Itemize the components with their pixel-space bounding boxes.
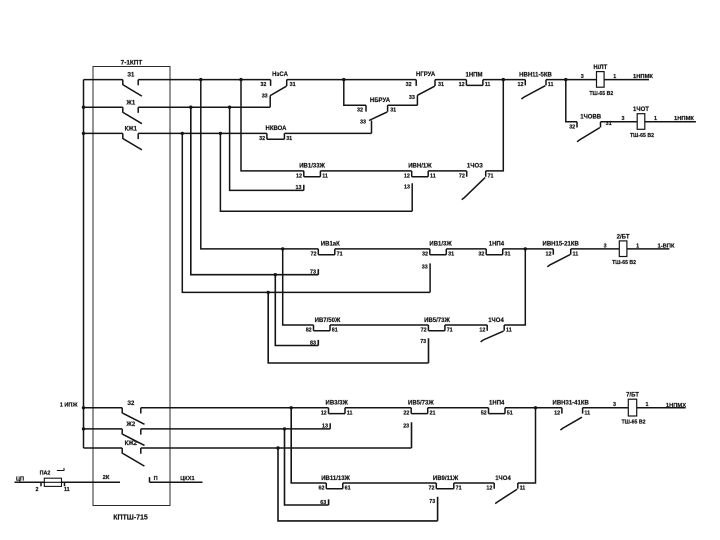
wire КЖ1 line into contact: [84, 132, 123, 134]
svg-text:Ж1: Ж1: [125, 100, 135, 106]
wire 7/БТ coil to net 1НПМХ: [637, 407, 686, 409]
wire row G: ИВ5/73Ж to 1НП4: [428, 407, 489, 409]
svg-text:11: 11: [506, 328, 512, 334]
svg-text:11: 11: [347, 410, 353, 416]
svg-text:ИВ3/3Ж: ИВ3/3Ж: [326, 401, 349, 407]
fuse ПА2: [40, 468, 64, 487]
wire row A: 1НПМ to НВН11-5КВ: [483, 79, 525, 81]
contact НГРУА: [406, 72, 444, 101]
wire Ж1 branch to ИВ1аК pin 73: [191, 107, 318, 275]
contact ИВ1/3Ж: [422, 242, 454, 258]
relay coil Н/ЛТ: [581, 65, 617, 97]
svg-text:1НПМХ: 1НПМХ: [666, 403, 686, 409]
contact 1ЧОЗ: [459, 164, 494, 200]
svg-text:ТШ-65 В2: ТШ-65 В2: [630, 133, 654, 139]
svg-text:ИВН15-21КВ: ИВН15-21КВ: [543, 242, 580, 248]
svg-text:71: 71: [337, 252, 343, 258]
svg-text:ЦКХ1: ЦКХ1: [180, 476, 194, 482]
svg-text:72: 72: [311, 252, 317, 258]
contact КЖ2 of КПТШ: [122, 441, 144, 466]
wire row A: coil to net 1НПМК: [604, 79, 649, 81]
svg-text:НВН11-5КВ: НВН11-5КВ: [519, 72, 552, 78]
wire row E branch down to row F: [283, 249, 314, 325]
svg-text:11: 11: [485, 82, 491, 88]
svg-text:1НПМК: 1НПМК: [674, 116, 694, 122]
svg-text:1-ВПК: 1-ВПК: [657, 244, 675, 250]
wire row G branch down to row H: [291, 408, 326, 483]
contact ИВ7/50Ж: [306, 318, 341, 334]
wire КЖ1: НКВОА to НБРУА 33: [284, 132, 371, 134]
wire row E: ИВН15-21КВ to relay 2/БТ: [571, 248, 620, 250]
svg-text:ИВ1/3Ж: ИВ1/3Ж: [429, 242, 452, 248]
wire КЖ2 line to ИВ5/73Ж pin 23: [141, 422, 412, 448]
svg-text:31: 31: [290, 82, 296, 88]
svg-text:83: 83: [310, 340, 316, 346]
svg-text:1ЧО4: 1ЧО4: [488, 318, 504, 324]
wire Ж2 branch to ИВ11/13Ж pin 63: [285, 429, 329, 505]
svg-text:33: 33: [422, 264, 428, 270]
svg-text:23: 23: [403, 423, 409, 429]
relay coil 7/БТ: [613, 393, 649, 426]
code transmitter box 7-1КПТ / КПТШ-715: [93, 67, 170, 506]
wire row E: ИВ1аК to ИВ1/3Ж: [335, 248, 430, 250]
svg-text:ИВН/1Ж: ИВН/1Ж: [408, 164, 432, 170]
contact 1НП4 (row G): [481, 401, 513, 417]
wire ЦП to fuse: [15, 482, 45, 486]
svg-text:11: 11: [520, 486, 526, 492]
wire КЖ1 branch to ИВ1/3Ж pin 33: [182, 133, 430, 292]
svg-text:72: 72: [459, 174, 465, 180]
contact ИВ11/13Ж: [319, 476, 351, 492]
contact КЖ1 of КПТШ: [123, 127, 142, 150]
svg-text:81: 81: [332, 328, 338, 334]
wire НГРУА 33 to НБРУА 31: [416, 95, 418, 105]
svg-text:71: 71: [447, 328, 453, 334]
wire Ж1 net branch to ИВ7/50Ж pin 83: [275, 275, 318, 346]
svg-text:ИВ5/73Ж: ИВ5/73Ж: [424, 318, 450, 324]
svg-text:31: 31: [505, 252, 511, 258]
svg-text:З1: З1: [127, 73, 135, 79]
wire З2 line into contact: [84, 407, 123, 409]
wire box terminal П to net ЦКХ1: [150, 477, 203, 482]
contact 1ЧО4 (row F): [479, 318, 511, 342]
svg-text:1НПМК: 1НПМК: [633, 74, 653, 80]
svg-text:3: 3: [604, 243, 607, 249]
contact ИВ5/73Ж (row F): [421, 318, 453, 334]
wire КЖ1 net branch to ИВ5/73Ж pin 73: [268, 292, 428, 363]
wire row G: ИВН31-41КВ to relay 7/БТ: [583, 407, 629, 409]
wire З1 branch down to row D: [241, 80, 304, 171]
wire row D: ИВН/1Ж to 1ЧОЗ: [428, 170, 467, 172]
contact ИВН15-21КВ: [543, 242, 580, 267]
wire Ж1 branch to ИВ1/33Ж pin 13: [230, 107, 304, 190]
wire row A: НВН11-5КВ to relay Н/ЛТ: [546, 79, 597, 81]
svg-text:ИВ7/50Ж: ИВ7/50Ж: [315, 318, 341, 324]
svg-text:11: 11: [573, 252, 579, 258]
svg-text:73: 73: [429, 499, 435, 505]
svg-text:12: 12: [546, 252, 552, 258]
wire НБРУА 31 to НГРУА 33: [388, 104, 418, 106]
wire row A: НзСА to НГРУА: [287, 79, 417, 81]
svg-text:ИВ1аК: ИВ1аК: [321, 242, 340, 248]
wire row E: ИВ1/3Ж to 1НП4: [446, 248, 486, 250]
svg-text:3: 3: [613, 402, 616, 408]
contact 1ЧО4 (row H): [486, 476, 525, 504]
svg-text:32: 32: [569, 124, 575, 130]
svg-text:11: 11: [584, 410, 590, 416]
relay coil 2/БТ: [604, 234, 640, 266]
contact ИВ3/3Ж: [321, 401, 353, 417]
wire 2/БТ coil to net 1-ВПК: [627, 248, 670, 250]
wire НзСА 33 to Ж1 line: [269, 96, 271, 108]
contact Ж2 of КПТШ: [122, 422, 144, 445]
wire row F: ИВ5/73Ж to 1ЧО4: [445, 324, 487, 326]
wire row F: 1ЧО4 up to row E: [504, 249, 525, 325]
svg-text:1ЧОВВ: 1ЧОВВ: [580, 115, 602, 121]
contact НКВОА: [259, 126, 292, 142]
contact НБРУА: [357, 98, 396, 126]
contact ИВ1/33Ж: [296, 164, 328, 180]
svg-text:1НП4: 1НП4: [489, 242, 505, 248]
svg-text:1НП4: 1НП4: [489, 401, 505, 407]
wire Ж1 line into contact: [84, 106, 123, 108]
svg-text:3: 3: [622, 116, 625, 122]
wire row D: ИВ1/33Ж to ИВН/1Ж: [320, 170, 411, 172]
contact ИВ1аК: [311, 242, 343, 258]
svg-text:31: 31: [286, 136, 292, 142]
wire row A: НГРУА to 1НПМ: [435, 79, 466, 81]
wire Ж2 line into contact: [84, 428, 123, 430]
svg-text:72: 72: [429, 486, 435, 492]
wire Ж1 line to НзСА 33: [138, 106, 270, 108]
svg-text:ПА2: ПА2: [40, 471, 51, 477]
wire row D: 1ЧОЗ up to row A: [486, 80, 504, 171]
wire row H: ИВ11/13Ж to ИВ9/11Ж: [343, 482, 437, 484]
svg-text:12: 12: [459, 82, 465, 88]
svg-text:12: 12: [518, 82, 524, 88]
svg-text:72: 72: [421, 328, 427, 334]
svg-text:71: 71: [456, 486, 462, 492]
wire row F: ИВ7/50Ж to ИВ5/73Ж: [330, 324, 428, 326]
junction dots on bus: [82, 106, 85, 109]
svg-text:71: 71: [488, 174, 494, 180]
svg-text:32: 32: [406, 82, 412, 88]
wire: left feed bus 1ИПЖ: [83, 80, 85, 448]
svg-text:КЖ2: КЖ2: [125, 441, 138, 447]
wire З1 branch down to НБРУА: [344, 80, 366, 106]
contact НзСА: [260, 72, 295, 100]
svg-text:12: 12: [321, 410, 327, 416]
contact ИВ5/73Ж (row G): [403, 401, 435, 417]
contact НВН11-5КВ: [518, 72, 554, 99]
svg-text:Н/ЛТ: Н/ЛТ: [593, 65, 607, 71]
contact Ж1 of КПТШ: [123, 100, 142, 123]
wire НБРУА 33 down to КЖ1 line: [371, 121, 373, 134]
wire З1 branch down to row E: [201, 80, 318, 249]
wire Ж2 line to ИВ3/3Ж pin 13: [141, 423, 330, 429]
svg-text:31: 31: [390, 108, 396, 114]
svg-text:12: 12: [486, 486, 492, 492]
svg-text:32: 32: [260, 82, 266, 88]
svg-text:7/БТ: 7/БТ: [626, 393, 639, 399]
wire КЖ1 line to НКВОА: [138, 132, 267, 134]
wire З1 line into contact: [84, 79, 123, 81]
svg-text:КПТШ-715: КПТШ-715: [113, 515, 148, 522]
wire row G: З2 to ИВ3/3Ж: [141, 407, 329, 409]
contact ИВН31-41КВ: [553, 401, 591, 430]
svg-text:12: 12: [296, 174, 302, 180]
contact 1НП4 (row E): [478, 242, 510, 258]
svg-text:ИВ5/73Ж: ИВ5/73Ж: [408, 401, 434, 407]
svg-text:12: 12: [479, 328, 485, 334]
svg-text:2: 2: [36, 487, 39, 493]
contact 1НПМ: [459, 72, 491, 88]
svg-text:61: 61: [345, 486, 351, 492]
svg-text:32: 32: [478, 252, 484, 258]
svg-text:3: 3: [581, 74, 584, 80]
svg-text:63: 63: [320, 500, 326, 506]
svg-text:ИВ1/33Ж: ИВ1/33Ж: [299, 164, 325, 170]
svg-text:КЖ1: КЖ1: [125, 127, 138, 133]
svg-text:З2: З2: [127, 401, 135, 407]
wire row G: 1НП4 to ИВН31-41КВ: [505, 407, 562, 409]
svg-text:ИВН31-41КВ: ИВН31-41КВ: [553, 401, 590, 407]
svg-text:73: 73: [310, 270, 316, 276]
svg-text:НзСА: НзСА: [272, 72, 288, 78]
svg-text:73: 73: [420, 339, 426, 345]
svg-text:2К: 2К: [103, 475, 110, 481]
contact З1 of КПТШ: [123, 73, 142, 96]
svg-text:22: 22: [403, 410, 409, 416]
svg-text:31: 31: [438, 82, 444, 88]
svg-text:51: 51: [507, 410, 513, 416]
wire КЖ1 branch to ИВН/1Ж pin 13: [220, 133, 412, 211]
wire row A: З1 to НзСА: [138, 79, 270, 81]
svg-text:НБРУА: НБРУА: [370, 98, 391, 104]
svg-text:62: 62: [319, 486, 325, 492]
svg-text:Ж2: Ж2: [125, 422, 135, 428]
svg-text:ТШ-65 В2: ТШ-65 В2: [622, 420, 646, 426]
svg-text:33: 33: [409, 95, 415, 101]
svg-text:32: 32: [357, 108, 363, 114]
svg-text:33: 33: [262, 94, 268, 100]
svg-text:11: 11: [322, 174, 328, 180]
svg-text:1НПМ: 1НПМ: [466, 72, 483, 78]
svg-text:32: 32: [259, 136, 265, 142]
wire 1ЧОВВ to relay 1ЧОТ: [601, 121, 638, 123]
contact ИВ9/11Ж: [429, 476, 462, 492]
svg-text:7-1КПТ: 7-1КПТ: [121, 59, 143, 66]
contact З2 of КПТШ: [122, 401, 144, 424]
contact ИВН/1Ж: [404, 164, 436, 180]
svg-text:13: 13: [322, 424, 328, 430]
svg-text:31: 31: [448, 252, 454, 258]
svg-text:52: 52: [481, 410, 487, 416]
wire row H: 1ЧО4 up to row G: [518, 408, 536, 483]
svg-text:ИВ11/13Ж: ИВ11/13Ж: [321, 476, 350, 482]
wire 1ЧОТ coil to net 1НПМК: [645, 121, 696, 123]
svg-text:НГРУА: НГРУА: [416, 72, 436, 78]
svg-text:13: 13: [404, 185, 410, 191]
svg-text:11: 11: [548, 82, 554, 88]
wire КЖ2 line into contact: [84, 447, 123, 449]
svg-text:32: 32: [422, 252, 428, 258]
svg-text:11: 11: [430, 174, 436, 180]
svg-text:1ЧО4: 1ЧО4: [495, 476, 511, 482]
svg-text:ТШ-65 В2: ТШ-65 В2: [612, 260, 636, 266]
svg-text:2/БТ: 2/БТ: [617, 234, 630, 240]
svg-text:21: 21: [430, 410, 436, 416]
svg-text:1ЧОТ: 1ЧОТ: [633, 107, 649, 113]
svg-text:82: 82: [306, 328, 312, 334]
svg-text:НКВОА: НКВОА: [265, 126, 287, 132]
wire КЖ2 branch to ИВ9/11Ж pin 73: [278, 448, 438, 521]
svg-text:ТШ-65 В2: ТШ-65 В2: [589, 91, 613, 97]
svg-text:11: 11: [64, 487, 70, 493]
svg-text:П: П: [154, 476, 158, 482]
svg-text:1ЧОЗ: 1ЧОЗ: [467, 164, 483, 170]
svg-text:33: 33: [360, 119, 366, 125]
svg-text:1 ИПЖ: 1 ИПЖ: [60, 403, 79, 409]
wire row A branch down to 1ЧОВВ: [566, 80, 577, 122]
relay coil 1ЧОТ: [622, 107, 658, 139]
wire row G: ИВ3/3Ж to ИВ5/73Ж: [345, 407, 411, 409]
svg-text:13: 13: [296, 185, 302, 191]
svg-text:12: 12: [554, 410, 560, 416]
contact 1ЧОВВ: [569, 115, 611, 142]
svg-text:12: 12: [404, 174, 410, 180]
wire row E: 1НП4 to ИВН15-21КВ: [503, 248, 554, 250]
svg-text:ИВ9/11Ж: ИВ9/11Ж: [433, 476, 459, 482]
wire row H: ИВ9/11Ж to 1ЧО4: [454, 482, 494, 484]
wire fuse to box terminal 2К: [62, 482, 121, 486]
